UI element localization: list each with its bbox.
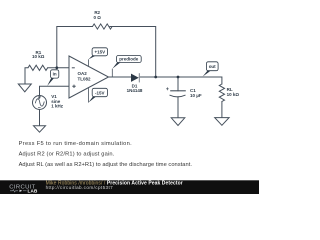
logo CircuitLab	[9, 184, 38, 193]
svg-text:-15V: -15V	[95, 90, 105, 95]
ground (RL)	[215, 118, 229, 126]
flag in	[47, 70, 59, 86]
source V1	[33, 94, 64, 110]
svg-text:1 kHz: 1 kHz	[51, 104, 64, 109]
resistor R1	[28, 50, 48, 71]
wire V1 top to op-amp non-inverting input	[40, 86, 70, 95]
wire diode cathode to RL top	[139, 77, 222, 84]
resistor RL	[219, 84, 239, 101]
junction node output-C1	[177, 76, 180, 79]
svg-text:1N4148: 1N4148	[127, 88, 143, 93]
flag out	[203, 62, 218, 77]
junction node inverting input	[55, 66, 58, 69]
svg-text:LAB: LAB	[28, 189, 39, 194]
svg-text:prediode: prediode	[119, 57, 138, 62]
svg-text:Adjust R2 (or R2/R1) to adjust: Adjust R2 (or R2/R1) to adjust gain.	[19, 152, 115, 158]
svg-text:10 µF: 10 µF	[190, 93, 202, 98]
ground (R1)	[18, 84, 31, 92]
svg-text:10 kΩ: 10 kΩ	[32, 54, 45, 59]
op-amp OA2	[69, 56, 109, 98]
wire V1 bottom to ground	[39, 110, 41, 126]
svg-text:out: out	[209, 64, 216, 69]
wire ground to R1 left	[25, 68, 28, 84]
svg-text:0 Ω: 0 Ω	[94, 15, 102, 20]
svg-text:C1: C1	[190, 88, 196, 93]
wire RL bottom to ground	[221, 102, 223, 118]
flag prediode	[112, 56, 141, 78]
footer bar	[0, 180, 259, 194]
svg-text:TL082: TL082	[78, 77, 92, 82]
wire op-amp output to diode anode	[109, 76, 132, 78]
svg-text:Adjust RL (as well as R2+R1) t: Adjust RL (as well as R2+R1) to adjust t…	[19, 162, 193, 168]
wire feedback top-left: from inverting node up and right to R2	[57, 27, 93, 68]
svg-text:OA2: OA2	[78, 71, 88, 76]
svg-text:10 kΩ: 10 kΩ	[227, 92, 240, 97]
note instructions	[19, 141, 193, 168]
footer credit text	[46, 181, 183, 191]
resistor R2	[93, 10, 113, 29]
ground (C1)	[171, 118, 185, 126]
svg-text:Press F5 to run time-domain si: Press F5 to run time-domain simulation.	[19, 141, 132, 147]
capacitor C1	[166, 87, 202, 98]
svg-text:http://circuitlab.com/cpt53t7: http://circuitlab.com/cpt53t7	[46, 185, 114, 190]
junction node output-feedback	[154, 76, 157, 79]
wire R1 right to op-amp inverting input	[48, 67, 69, 69]
wire from R2 right to output node	[110, 27, 156, 78]
wire C1 bottom to ground	[177, 97, 179, 118]
svg-text:in: in	[53, 72, 57, 77]
wire output node down to C1	[177, 77, 179, 91]
flag -15V	[88, 87, 107, 102]
diode D1	[127, 73, 143, 93]
svg-text:+15V: +15V	[94, 50, 105, 55]
ground (V1)	[34, 126, 46, 132]
flag +15V	[88, 48, 107, 66]
